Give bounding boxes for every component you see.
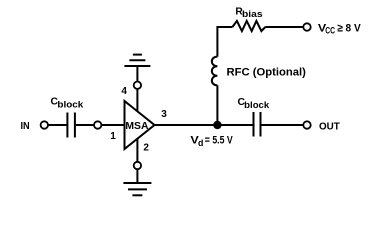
- wire pin-1 circle to amplifier input: [102, 124, 125, 126]
- wire pin-2 circle to bottom ground: [136, 169, 138, 183]
- svg-text:= 5.5 V: = 5.5 V: [205, 135, 233, 147]
- node label Vd = 5.5 V: [190, 135, 233, 148]
- wire node to inductor (riser): [216, 85, 218, 125]
- wire pin-4 circle to top ground: [136, 66, 138, 81]
- wire output capacitor to OUT terminal: [262, 124, 304, 126]
- svg-text:block: block: [57, 100, 84, 110]
- pin 2 terminal circle: [134, 162, 141, 169]
- pin 1 terminal circle: [94, 121, 101, 128]
- ground (top, inverted): [124, 55, 150, 66]
- svg-text:CC: CC: [325, 26, 335, 36]
- OUT terminal: [303, 121, 310, 128]
- svg-text:3: 3: [161, 109, 167, 120]
- wire amplifier top edge to pin-4 circle: [136, 89, 138, 112]
- wire amplifier output to output capacitor: [154, 124, 253, 126]
- svg-text:MSA: MSA: [125, 121, 148, 132]
- amplifier U1 (MSA): [125, 101, 155, 149]
- Vcc terminal: [303, 23, 310, 30]
- resistor R_bias: [232, 21, 265, 31]
- capacitor C_block (input): [67, 113, 75, 138]
- wire amplifier bottom edge to pin-2 circle: [136, 139, 138, 162]
- svg-text:2: 2: [143, 143, 149, 154]
- svg-text:RFC (Optional): RFC (Optional): [227, 67, 307, 79]
- value label C_block (input): [51, 95, 85, 109]
- pin 4 terminal circle: [134, 82, 141, 89]
- wire inductor to bias rail corner: [217, 27, 232, 57]
- supply label Vcc >= 8 V: [318, 22, 361, 35]
- inductor RFC: [212, 57, 218, 86]
- wire input capacitor to pin-1 circle: [76, 124, 94, 126]
- junction node Vd: [213, 121, 221, 129]
- svg-text:OUT: OUT: [319, 121, 340, 133]
- value label C_block (output): [238, 96, 271, 110]
- wire IN terminal to input capacitor: [48, 124, 66, 126]
- svg-text:≥ 8 V: ≥ 8 V: [337, 22, 361, 34]
- IN terminal: [41, 121, 48, 128]
- wire resistor to Vcc terminal: [265, 26, 303, 28]
- svg-text:d: d: [198, 138, 203, 148]
- svg-text:IN: IN: [21, 120, 30, 132]
- svg-text:block: block: [244, 100, 270, 110]
- value label R_bias: [235, 6, 262, 19]
- svg-text:bias: bias: [242, 9, 263, 19]
- svg-text:4: 4: [121, 86, 127, 97]
- capacitor C_block (output): [254, 112, 261, 137]
- ground (bottom): [123, 183, 151, 195]
- svg-text:1: 1: [110, 131, 116, 142]
